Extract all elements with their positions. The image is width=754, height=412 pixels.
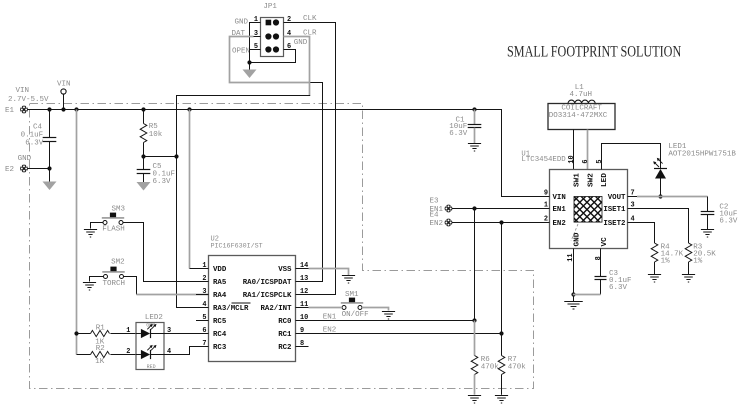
U1 pin 3 stub <box>628 208 638 210</box>
svg-text:RC3: RC3 <box>213 344 227 352</box>
JP1 pin 2 pad <box>273 19 279 25</box>
U2 pin 7 stub <box>196 346 209 348</box>
ground R7 <box>495 395 508 397</box>
wire SM1 right to ground (gray) <box>362 308 389 311</box>
wire L1 to U1 SW1 <box>573 130 575 170</box>
U2 pin 12 stub <box>296 294 309 296</box>
U2 pin 14 stub <box>296 268 309 270</box>
capacitor C2 <box>707 197 709 212</box>
ground C5 (gray triangle) <box>137 182 151 191</box>
wire U1 LED pin to LED1 <box>602 144 661 170</box>
wire EN1 column to R6 <box>474 209 476 321</box>
svg-text:DO3314-472MXC: DO3314-472MXC <box>549 112 608 120</box>
svg-text:JP1: JP1 <box>263 3 277 11</box>
U2 pin 3 stub <box>196 294 209 296</box>
junction EN1 column <box>472 206 476 210</box>
JP1 pin 6 pad <box>273 46 279 52</box>
ground R6 <box>468 395 481 397</box>
svg-text:RED: RED <box>147 364 156 370</box>
capacitor C5 <box>143 157 145 170</box>
wire SM3 to U2 RA5 <box>123 223 209 282</box>
U2 pin 2 stub <box>196 281 209 283</box>
svg-text:4.7uH: 4.7uH <box>570 91 593 99</box>
wire JP1 pin6 loop to ground <box>250 50 296 63</box>
svg-text:9: 9 <box>300 327 304 335</box>
svg-text:VDD: VDD <box>213 266 227 274</box>
junction C4/E2 <box>47 166 51 170</box>
svg-text:SMALL FOOTPRINT SOLUTION: SMALL FOOTPRINT SOLUTION <box>507 43 681 60</box>
ground C2 <box>701 229 714 231</box>
wire JP1 pin5 to ground net <box>250 49 261 51</box>
svg-text:C4: C4 <box>33 124 43 132</box>
svg-text:1: 1 <box>544 202 548 210</box>
MCLR overline <box>232 302 251 304</box>
dash-dot demarcation border <box>30 104 534 389</box>
svg-text:2: 2 <box>202 275 206 283</box>
junction GND/C3 <box>571 292 575 296</box>
wire VOUT net to C2 (gray) <box>637 196 708 198</box>
U2 pin 4 stub <box>196 307 209 309</box>
wire EN1: E3 to U1 pin1 <box>452 208 550 210</box>
ground U1 pin11 <box>564 301 582 303</box>
svg-text:E2: E2 <box>5 166 14 174</box>
svg-text:2: 2 <box>544 216 548 224</box>
terminal E4 <box>445 219 453 227</box>
svg-text:FLASH: FLASH <box>102 226 125 234</box>
ground SM3 <box>84 229 97 231</box>
U1 exposed pad (crosshatch) <box>574 197 602 223</box>
svg-text:VC: VC <box>601 237 609 247</box>
svg-text:8: 8 <box>300 340 304 348</box>
LED2 body <box>136 323 164 370</box>
U2 pin 6 stub <box>196 333 209 335</box>
wire SM2 left to ground <box>90 277 104 282</box>
svg-text:6: 6 <box>582 159 590 163</box>
JP1 pin 5 pad <box>265 46 271 52</box>
svg-text:10: 10 <box>568 155 576 163</box>
svg-text:3: 3 <box>202 288 206 296</box>
svg-text:4: 4 <box>631 216 635 224</box>
svg-text:RC5: RC5 <box>213 318 227 326</box>
svg-text:RA1/ICSPCLK: RA1/ICSPCLK <box>243 292 292 300</box>
svg-text:10: 10 <box>300 314 308 322</box>
U1 pad tie dashed <box>571 224 578 241</box>
svg-text:5: 5 <box>596 159 604 163</box>
svg-text:AOT2015HPW1751B: AOT2015HPW1751B <box>668 150 736 158</box>
wire DAT black segment to U2 pin13 <box>309 83 323 282</box>
IC U1 LTC3454EDD body <box>550 170 628 249</box>
wire VIN rail E1 to U1 pin9 <box>28 110 550 197</box>
ground C1 <box>468 143 481 145</box>
svg-text:R1: R1 <box>96 325 106 333</box>
ground R4 <box>648 274 661 276</box>
inductor L1 Coilcraft body <box>548 104 615 130</box>
svg-text:2.7V-5.5V: 2.7V-5.5V <box>8 96 49 104</box>
svg-text:GND: GND <box>574 232 582 246</box>
svg-text:6.3V: 6.3V <box>449 130 468 138</box>
wire EN2 net: U2 pin9 to R7 column <box>309 333 502 335</box>
svg-text:TORCH: TORCH <box>103 280 126 288</box>
svg-text:470k: 470k <box>508 363 527 371</box>
IC U2 PIC16F630 body <box>209 256 296 362</box>
wire U1 pin8 to C3 <box>600 249 602 277</box>
JP1 pin 1 (square pad) <box>266 20 272 26</box>
ground VSS <box>342 275 355 277</box>
svg-text:ISET1: ISET1 <box>603 206 626 214</box>
svg-text:SM3: SM3 <box>112 205 126 213</box>
svg-text:SM2: SM2 <box>111 258 125 266</box>
wire VSS: U2 pin14 to ground (gray) <box>309 269 349 276</box>
junction VIN/C1 <box>472 107 476 111</box>
resistor R2 <box>77 354 91 356</box>
junction R5/C5 <box>141 154 145 158</box>
svg-text:8: 8 <box>595 256 603 260</box>
svg-text:PIC16F630I/ST: PIC16F630I/ST <box>211 242 263 250</box>
junction JP1 ground node <box>247 60 251 64</box>
U2 pin 9 stub <box>296 333 309 335</box>
wire gray rail VIN to R1/R2 <box>76 110 78 355</box>
svg-text:VIN: VIN <box>57 80 71 88</box>
wire SM2 to U2 RA4 <box>124 277 137 295</box>
svg-text:RC1: RC1 <box>278 331 292 339</box>
JP1 pin 4 pad <box>273 33 279 39</box>
svg-text:6.3V: 6.3V <box>25 139 44 147</box>
svg-text:GND: GND <box>18 155 32 163</box>
svg-text:VSS: VSS <box>278 266 292 274</box>
svg-text:RA0/ICSPDAT: RA0/ICSPDAT <box>243 279 292 287</box>
svg-text:ON/OFF: ON/OFF <box>342 311 369 319</box>
svg-text:1: 1 <box>126 327 130 335</box>
svg-text:RA5: RA5 <box>213 279 227 287</box>
capacitor C1 <box>474 110 476 125</box>
diode LED1 <box>654 168 667 170</box>
wire DAT gray segment: JP1 pin3 left and down <box>254 36 261 38</box>
svg-text:VOUT: VOUT <box>608 194 626 202</box>
svg-text:1K: 1K <box>95 358 105 366</box>
U1 pin 9 stub <box>541 196 550 198</box>
svg-text:12: 12 <box>300 288 308 296</box>
svg-text:EN1: EN1 <box>553 206 567 214</box>
LED2 red die <box>136 354 141 356</box>
svg-text:EN2: EN2 <box>323 326 337 334</box>
terminal E1 <box>20 106 28 114</box>
svg-text:11: 11 <box>300 301 308 309</box>
wire CLR black segment to R5/C5 node and U2 pin4 (MCLR) <box>177 96 311 308</box>
wire C3 to ground node (gray) <box>573 294 601 296</box>
wire ISET2 to R4 <box>637 223 655 244</box>
U1 pin 4 stub <box>628 222 638 224</box>
junction VIN/stub <box>61 107 65 111</box>
svg-text:LTC3454EDD: LTC3454EDD <box>521 156 566 164</box>
svg-text:RC2: RC2 <box>278 344 291 352</box>
ground C4 (gray triangle) <box>43 182 57 191</box>
svg-text:6.3V: 6.3V <box>609 284 628 292</box>
junction LED1/VOUT <box>658 194 662 198</box>
svg-text:2: 2 <box>126 348 130 356</box>
resistor R4 <box>651 243 658 262</box>
U1 pin 2 stub <box>541 222 550 224</box>
U2 pin 1 stub <box>196 268 209 270</box>
svg-text:E3: E3 <box>430 198 440 206</box>
svg-text:RC4: RC4 <box>213 331 227 339</box>
resistor R5 <box>143 110 145 124</box>
svg-text:470k: 470k <box>481 363 500 371</box>
LED2 green die <box>136 333 141 335</box>
wire EN2: E4 to U1 pin2 <box>452 222 550 224</box>
svg-text:9: 9 <box>544 190 548 198</box>
svg-text:13: 13 <box>300 275 308 283</box>
svg-text:RA2/INT: RA2/INT <box>260 305 292 313</box>
wire CLR gray segment: JP1 pin4 right and down <box>284 37 310 96</box>
svg-text:R2: R2 <box>96 345 105 353</box>
U2 pin 5 stub <box>196 320 209 322</box>
U2 pin 8 stub <box>296 346 309 348</box>
svg-text:GND: GND <box>294 39 308 47</box>
JP1 pin 3 pad <box>265 33 271 39</box>
connector JP1 body <box>261 18 284 57</box>
resistor R6 <box>471 356 478 375</box>
junction MCLR net <box>174 154 178 158</box>
U1 pin 7 stub <box>628 196 638 198</box>
svg-text:10k: 10k <box>149 131 163 139</box>
svg-text:E4: E4 <box>430 212 440 220</box>
ground SM2 <box>83 282 96 284</box>
capacitor C4 <box>49 110 51 138</box>
terminal E2 <box>20 165 28 173</box>
svg-text:5: 5 <box>202 314 206 322</box>
LED1 emission arrows <box>654 162 659 167</box>
svg-text:SW2: SW2 <box>587 173 595 187</box>
ground R3 <box>682 274 695 276</box>
svg-text:0.1uF: 0.1uF <box>21 131 44 139</box>
wire U2 RA2/INT to SM1 (gray) <box>309 307 343 309</box>
junction EN1/R6 <box>472 318 476 322</box>
junction EN2/R7 <box>499 331 503 335</box>
wire U1 pin11 to ground <box>573 249 575 302</box>
node VIN (power stub with circle) <box>61 89 66 94</box>
wire VDD: VIN rail to U2 pin1 (gray) <box>189 110 191 269</box>
svg-text:3: 3 <box>631 202 635 210</box>
wire ISET1 to R3 <box>637 209 689 244</box>
svg-text:4: 4 <box>202 301 206 309</box>
svg-text:ISET2: ISET2 <box>603 220 625 228</box>
svg-text:VIN: VIN <box>16 87 30 95</box>
junction EN2 column <box>499 220 503 224</box>
U2 pin 11 stub <box>296 307 309 309</box>
svg-text:RC0: RC0 <box>278 318 292 326</box>
ground JP1 (gray triangle) <box>243 70 257 79</box>
capacitor C3 <box>595 276 607 278</box>
wire LED2 pin4 to U2 RC3 <box>164 347 209 355</box>
svg-text:6.3V: 6.3V <box>719 217 738 225</box>
U2 pin 10 stub <box>296 320 309 322</box>
wire EN2 column to R7 <box>501 223 503 356</box>
U2 pin 13 stub <box>296 281 309 283</box>
wire CLK: JP1 pin2 to U2 pin12 <box>284 23 336 295</box>
resistor R3 <box>685 243 692 262</box>
wire EN1 net: U2 pin10 to R6 column <box>309 320 475 322</box>
svg-text:1%: 1% <box>661 257 671 265</box>
svg-text:SW1: SW1 <box>574 173 582 187</box>
ground SM1 <box>382 311 395 313</box>
svg-text:EN2: EN2 <box>430 220 444 228</box>
wire JP1 pin1 to ground <box>250 23 261 70</box>
wire L1 to U1 SW2 <box>587 130 589 170</box>
U1 pin 1 stub <box>541 208 550 210</box>
junction rail/R1 <box>74 331 78 335</box>
svg-text:VIN: VIN <box>553 194 566 202</box>
junction VIN/C4 <box>47 107 51 111</box>
junction VIN/R5 <box>141 107 145 111</box>
svg-text:LED: LED <box>601 173 609 187</box>
svg-text:RA3/MCLR: RA3/MCLR <box>213 305 249 313</box>
svg-text:OPEN: OPEN <box>232 48 250 56</box>
svg-text:1%: 1% <box>693 257 703 265</box>
svg-text:7: 7 <box>631 190 635 198</box>
wire SM3 left to ground <box>91 223 104 229</box>
wire LED2 pin3 to U2 RC4 <box>164 333 209 335</box>
svg-text:6.3V: 6.3V <box>153 178 172 186</box>
wire E2 to C4 node <box>28 168 50 170</box>
terminal E3 <box>445 205 453 213</box>
junction VIN/LED rail <box>74 107 78 111</box>
svg-text:E1: E1 <box>5 107 15 115</box>
junction VIN/VDD <box>187 107 191 111</box>
svg-text:RA4: RA4 <box>213 292 227 300</box>
wire R5/C5 node to MCLR net <box>144 156 177 158</box>
svg-text:14: 14 <box>300 262 308 270</box>
resistor R1 <box>77 333 91 335</box>
svg-text:LED2: LED2 <box>145 314 163 322</box>
svg-text:EN1: EN1 <box>323 313 337 321</box>
svg-text:EN2: EN2 <box>553 220 566 228</box>
resistor R7 <box>498 356 505 375</box>
svg-text:GND: GND <box>234 19 248 27</box>
